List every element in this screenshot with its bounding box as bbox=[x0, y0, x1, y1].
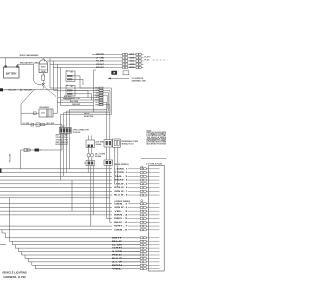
svg-text:VEHICLE LIGHTING: VEHICLE LIGHTING bbox=[2, 271, 28, 275]
svg-text:RED: RED bbox=[112, 255, 123, 257]
svg-text:S GRN: S GRN bbox=[112, 251, 123, 253]
svg-text:BLK GRN: BLK GRN bbox=[47, 123, 55, 125]
svg-text:BRN - 4: BRN - 4 bbox=[114, 213, 128, 216]
svg-text:A-L W: A-L W bbox=[112, 260, 122, 263]
svg-text:TAIL - 3: TAIL - 3 bbox=[114, 175, 129, 178]
svg-text:AUTO: AUTO bbox=[41, 65, 47, 68]
svg-text:4 PIN CONNECTOR: 4 PIN CONNECTOR bbox=[73, 128, 90, 131]
svg-text:ASSEMBLY USE: ASSEMBLY USE bbox=[132, 80, 147, 83]
svg-text:TO SURFACE: TO SURFACE bbox=[132, 77, 145, 80]
svg-text:BLK W: BLK W bbox=[112, 258, 122, 260]
svg-text:FLAT 4: FLAT 4 bbox=[145, 56, 151, 59]
svg-text:GRN: GRN bbox=[129, 64, 135, 66]
svg-text:WHT: WHT bbox=[129, 54, 135, 56]
svg-text:RED - 5: RED - 5 bbox=[114, 218, 129, 220]
svg-text:BRN: BRN bbox=[112, 265, 123, 267]
svg-text:A-L GRN: A-L GRN bbox=[112, 243, 123, 246]
svg-text:L TURN - 1: L TURN - 1 bbox=[114, 168, 128, 170]
svg-text:BLK - 6: BLK - 6 bbox=[114, 222, 129, 224]
svg-text:YELLOW: YELLOW bbox=[9, 154, 11, 162]
svg-text:GRN - 1: GRN - 1 bbox=[114, 203, 128, 205]
svg-text:DECK: DECK bbox=[84, 113, 90, 115]
svg-text:SIGNAL PLUG: SIGNAL PLUG bbox=[122, 142, 135, 145]
svg-text:RED BATTERY CABLE: RED BATTERY CABLE bbox=[20, 61, 40, 64]
svg-text:BRAKE - 4: BRAKE - 4 bbox=[114, 179, 128, 182]
svg-text:ADAPTER: ADAPTER bbox=[84, 115, 94, 118]
svg-text:FUSE: FUSE bbox=[41, 71, 47, 73]
svg-text:BLU W - 8: BLU W - 8 bbox=[114, 195, 128, 197]
svg-text:GRN: GRN bbox=[112, 248, 123, 250]
svg-text:J 3 FOR 4 FLAT: J 3 FOR 4 FLAT bbox=[146, 163, 163, 166]
svg-text:TO DECK: TO DECK bbox=[73, 132, 82, 134]
svg-text:VEHICLE CABLE ASSEMBLY: VEHICLE CABLE ASSEMBLY bbox=[20, 54, 39, 57]
svg-text:R TURN - 2: R TURN - 2 bbox=[114, 172, 128, 174]
svg-text:GRN: GRN bbox=[129, 58, 135, 60]
svg-text:(BLUE WIRES): (BLUE WIRES) bbox=[114, 164, 129, 166]
svg-text:LT B-W - 5: LT B-W - 5 bbox=[114, 183, 128, 185]
svg-text:GRN W - 2: GRN W - 2 bbox=[114, 207, 128, 209]
svg-text:GRN W - 7: GRN W - 7 bbox=[114, 191, 128, 193]
svg-text:WHT: WHT bbox=[112, 237, 124, 239]
svg-text:SIGNAL: SIGNAL bbox=[95, 155, 103, 158]
svg-text:BLK GRN: BLK GRN bbox=[70, 101, 79, 103]
svg-text:MOUNTING POSITION: MOUNTING POSITION bbox=[147, 143, 167, 145]
svg-text:YELLOW: YELLOW bbox=[24, 90, 32, 92]
svg-text:SIGNAL: SIGNAL bbox=[96, 143, 102, 146]
svg-text:PLUG: PLUG bbox=[145, 59, 151, 61]
svg-text:HARNESS, 11 PIN: HARNESS, 11 PIN bbox=[4, 275, 26, 279]
svg-text:GRN WHT: GRN WHT bbox=[72, 104, 81, 106]
svg-text:12V: 12V bbox=[41, 113, 45, 115]
svg-text:WHT - 7: WHT - 7 bbox=[114, 226, 128, 228]
svg-text:BATTERY: BATTERY bbox=[6, 72, 17, 75]
svg-text:BLK WHT: BLK WHT bbox=[64, 96, 72, 98]
svg-text:GRN - 8: GRN - 8 bbox=[114, 229, 128, 231]
svg-text:RT B-W - 6: RT B-W - 6 bbox=[114, 187, 128, 189]
svg-text:WHT: WHT bbox=[95, 100, 99, 102]
svg-text:YEL - 3: YEL - 3 bbox=[114, 211, 129, 213]
svg-text:BLK: BLK bbox=[112, 241, 123, 243]
svg-text:YELLOW: YELLOW bbox=[8, 90, 16, 92]
svg-text:BRN: BRN bbox=[129, 67, 135, 69]
